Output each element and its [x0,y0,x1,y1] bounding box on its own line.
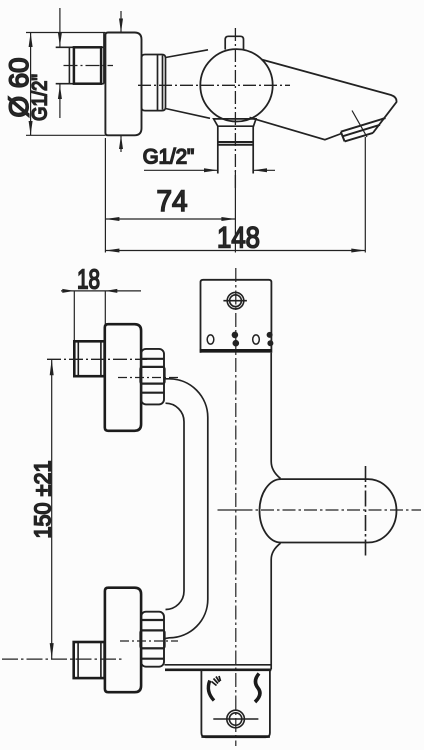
dimension G1/2 rotated arrows [58,8,62,118]
body sweep outer upper [165,379,208,639]
svg-text:18: 18 [77,263,100,294]
svg-text:G1/2": G1/2" [28,74,52,121]
body sweep inner upper [166,403,185,609]
central axis dash-dot [235,268,237,746]
arrow below body [119,135,123,152]
lower nut axis [2,658,123,660]
wall nut side view [56,33,104,84]
lower wall plate [201,670,270,737]
outlet flange below circle [214,119,256,126]
upper hex nut (band style) [140,349,164,405]
plate scale marks [207,332,273,347]
shower spray icon [208,676,220,701]
upper screw [223,292,247,309]
lower nut front [74,642,105,678]
steam wave icon [255,674,260,703]
column right edge with pill fillets [271,353,280,670]
extension line spout tip [352,111,367,253]
dimension O60 vertical line [26,33,105,136]
upper wall plate [201,280,272,353]
dimension 148 line [105,249,365,253]
hex adapter (top view) [142,55,166,111]
body bottom line [165,664,272,666]
spout top edge [262,60,397,133]
dimension 74 line [105,217,235,221]
knob stem [225,36,243,49]
extension line nut face [73,291,75,341]
cone bottom line [166,109,211,119]
svg-text:G1/2": G1/2" [143,144,195,168]
outlet tube [218,126,253,173]
dimension 150 line [50,359,54,659]
nut centerline [64,65,114,67]
lower hex nut (band style) [140,612,164,667]
extension line escutcheon face [104,291,106,325]
lower plate top line [165,668,271,671]
handle circle [200,49,272,121]
pill horizontal axis [218,509,422,511]
arrow above body [119,11,123,33]
extension line left reference [104,138,106,253]
dimension 18 line and arrows [61,289,141,293]
svg-text:74: 74 [157,185,188,218]
upper plate thick bottom band [200,349,272,353]
lower screw [213,710,258,728]
extension line outlet center [234,171,236,253]
escutcheon body (top view) [105,33,141,136]
lower escutcheon axis [120,640,178,642]
faucet axis horizontal dash-dot [138,84,290,86]
dimension G1/2 arrows at outlet [144,168,275,172]
spout outlet axis vertical [365,466,367,558]
knob axis vertical dash-dot [234,28,236,188]
upper escutcheon front [105,324,141,431]
upper nut axis [47,358,147,360]
spout bottom edge [250,118,342,140]
svg-text:148: 148 [217,222,260,255]
spout nose pill [260,479,397,542]
spout end cap band [341,118,386,141]
lower escutcheon front [105,588,141,693]
upper escutcheon axis [118,377,178,379]
upper nut front [74,341,104,376]
cone top line [166,50,209,58]
